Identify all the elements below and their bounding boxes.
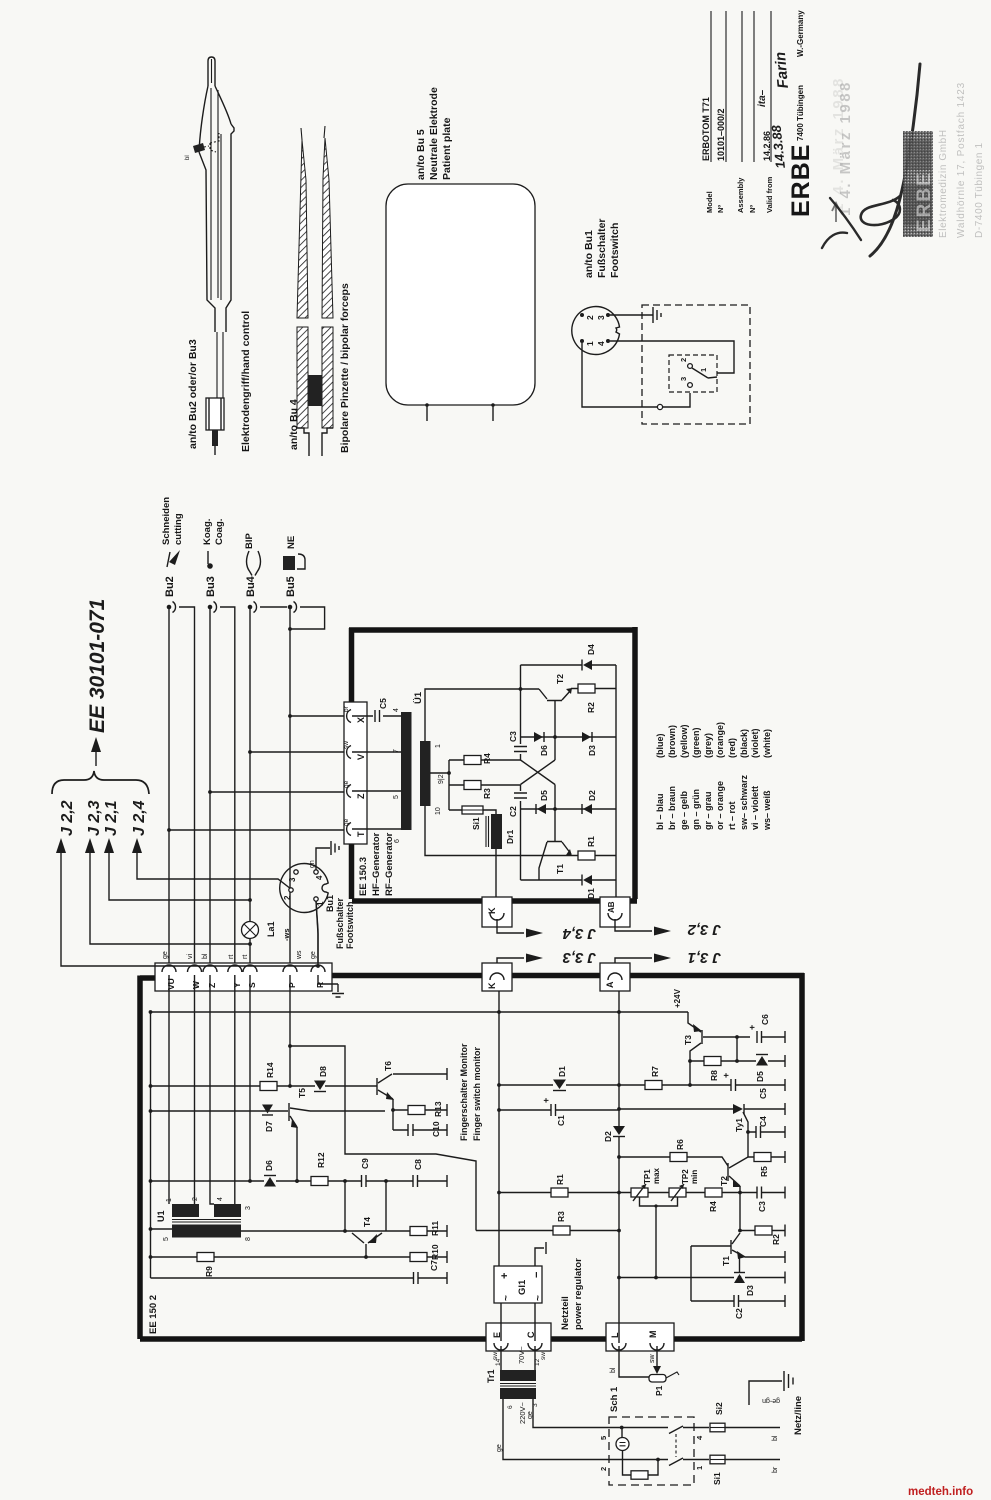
svg-text:J 3,3: J 3,3: [562, 949, 596, 966]
svg-text:D4: D4: [586, 644, 596, 655]
svg-text:Fußschalter: Fußschalter: [596, 218, 608, 278]
switch blade top: [669, 1426, 709, 1434]
plug pin: [212, 430, 218, 446]
svg-text:Ty1: Ty1: [734, 1118, 744, 1132]
svg-text:J 2,3: J 2,3: [86, 800, 103, 836]
svg-text:X: X: [356, 717, 366, 723]
svg-text:D1: D1: [586, 888, 596, 899]
R11 row: [386, 1230, 447, 1232]
svg-text:Elektrodengriff/hand control: Elektrodengriff/hand control: [240, 311, 252, 452]
stamp arrow mark: [832, 203, 840, 222]
svg-text:(grey): (grey): [703, 733, 713, 758]
svg-text:EE 150 2: EE 150 2: [148, 1295, 159, 1334]
switch contact 3: [688, 383, 693, 388]
svg-text:an/to Bu 5: an/to Bu 5: [415, 129, 427, 180]
svg-text:J 2,2: J 2,2: [59, 800, 76, 836]
svg-text:Finger switch monitor: Finger switch monitor: [472, 1046, 482, 1141]
svg-text:C3: C3: [508, 731, 518, 742]
resistor R11: [410, 1227, 427, 1236]
Ty1 row: [619, 1108, 785, 1110]
transformer Tr1: [486, 1346, 668, 1460]
svg-text:U1: U1: [156, 1210, 166, 1222]
svg-text:(red): (red): [727, 738, 737, 758]
connector strip E C: [486, 1323, 551, 1351]
svg-text:La1: La1: [266, 921, 276, 937]
svg-text:R3: R3: [556, 1211, 566, 1222]
capacitor C3: [514, 747, 527, 752]
forceps handle end: [297, 428, 333, 456]
diode D1: [553, 1080, 566, 1090]
svg-text:Si1: Si1: [712, 1472, 722, 1485]
svg-text:ge – gelb: ge – gelb: [679, 790, 689, 830]
handle nose cone: [199, 86, 231, 152]
svg-text:R9: R9: [204, 1266, 214, 1277]
svg-text:an/to Bu1: an/to Bu1: [583, 230, 595, 278]
pin 4: [606, 339, 610, 343]
trimmer TP2: [669, 1188, 686, 1197]
svg-text:R1: R1: [586, 836, 596, 847]
svg-text:P1: P1: [654, 1385, 664, 1396]
svg-text:Si2: Si2: [714, 1402, 724, 1415]
svg-text:1: 1: [166, 1198, 173, 1202]
svg-text:ERBE: ERBE: [914, 171, 935, 232]
svg-text:~: ~: [501, 1295, 512, 1301]
svg-text:5: 5: [599, 1436, 608, 1440]
svg-text:4: 4: [393, 708, 400, 712]
potentiometer P1: [649, 1372, 679, 1396]
D1 R7 C5 row: [499, 1084, 785, 1086]
svg-text:br – braun: br – braun: [667, 786, 677, 830]
transformer U1 primary bar: [401, 712, 412, 830]
ground symbol: [653, 307, 661, 323]
svg-text:C6: C6: [760, 1014, 770, 1025]
svg-text:ws: ws: [296, 950, 303, 960]
svg-text:D5: D5: [539, 790, 549, 801]
svg-text:or – orange: or – orange: [715, 781, 725, 830]
svg-text:Footswitch: Footswitch: [345, 902, 355, 950]
arrowhead J2,1: [104, 838, 114, 853]
capacitor C10: [393, 1129, 447, 1131]
svg-text:Bu2: Bu2: [164, 576, 176, 597]
svg-text:Farin: Farin: [772, 51, 792, 89]
wire J2,3 to lamp: [90, 853, 250, 944]
wire U1 pin8 to T4: [241, 1230, 348, 1232]
wire Bu4 socket to Bu5 pin: [260, 606, 287, 608]
wire L to P1: [610, 1346, 649, 1377]
svg-text:R8: R8: [709, 1070, 719, 1081]
connector VU: [162, 965, 176, 972]
resistor R2: [571, 688, 616, 690]
bipolar forceps drawing: [288, 126, 351, 456]
resistor R1: [571, 855, 616, 857]
inner dashed switch box: [669, 355, 717, 392]
svg-text:D2: D2: [587, 790, 597, 801]
wiper link wire: [640, 1197, 678, 1278]
svg-text:3: 3: [245, 1206, 252, 1210]
svg-text:C9: C9: [360, 1158, 370, 1169]
svg-text:R4: R4: [708, 1201, 718, 1212]
svg-text:C3: C3: [757, 1201, 767, 1212]
svg-text:T2: T2: [719, 1176, 729, 1186]
transistor T6: [376, 1078, 378, 1095]
svg-text:+: +: [721, 1073, 731, 1078]
plug body: [206, 398, 224, 430]
svg-text:min: min: [690, 1170, 699, 1184]
diode row D6 D3: [521, 736, 617, 738]
bottom rail with D1: [521, 879, 617, 881]
svg-text:gn: gn: [309, 860, 316, 868]
wire Z to pin5: [352, 790, 401, 792]
icon bipolar forceps: [246, 551, 260, 576]
svg-text:2: 2: [585, 315, 595, 320]
icon coagulation electrode: [207, 551, 209, 564]
wire Bu3 to Z with branch: [208, 609, 344, 963]
wire Dr1 to K: [495, 849, 497, 899]
capacitor C2: [514, 793, 527, 798]
svg-text:ge: ge: [162, 951, 169, 959]
svg-text:+: +: [541, 1098, 551, 1103]
protective earth: [749, 1371, 793, 1405]
secondary pins: [501, 1346, 535, 1370]
svg-text:R12: R12: [316, 1152, 326, 1168]
connector K: [482, 897, 512, 927]
svg-text:K: K: [487, 982, 497, 989]
svg-text:BIP: BIP: [244, 533, 255, 550]
svg-text:2: 2: [192, 1197, 199, 1201]
svg-text:K: K: [487, 907, 497, 914]
transistor T2: [727, 1163, 729, 1181]
vertical rail D to T4: [344, 1181, 346, 1231]
svg-text:Ü1: Ü1: [413, 691, 424, 704]
svg-text:(blue): (blue): [655, 734, 665, 759]
transistor T2: [539, 689, 571, 701]
svg-text:+24V: +24V: [673, 988, 682, 1008]
svg-text:gr – grau: gr – grau: [703, 791, 713, 830]
svg-text:T5: T5: [297, 1088, 307, 1098]
icon neutral electrode: [283, 556, 295, 570]
svg-text:Koag.: Koag.: [202, 519, 213, 545]
svg-text:R11: R11: [430, 1221, 440, 1236]
handle body outline: [199, 124, 234, 332]
svg-text:Netzteil: Netzteil: [560, 1296, 571, 1330]
connector A lower: [600, 963, 630, 991]
fuse Si2: [710, 1402, 780, 1441]
lamp series resistor: [623, 1451, 659, 1476]
R3 row: [476, 1230, 619, 1232]
svg-text:R13: R13: [433, 1101, 443, 1117]
R2 row: [740, 1230, 785, 1232]
ruled line no: [725, 11, 727, 162]
transistor T3: [688, 1012, 701, 1032]
svg-text:cutting: cutting: [173, 513, 184, 545]
svg-text:J 2,1: J 2,1: [103, 800, 120, 836]
svg-text:2: 2: [283, 895, 292, 900]
svg-text:3: 3: [679, 377, 688, 381]
wire J2,1 to lamp top: [109, 853, 250, 900]
R8 D5 row: [690, 1037, 785, 1061]
resistor R13: [393, 1109, 447, 1111]
R6 row: [619, 1157, 728, 1166]
svg-text:Assembly: Assembly: [736, 177, 745, 213]
T1 base network: [691, 1246, 731, 1301]
ruled line model: [710, 11, 712, 162]
diode D5: [756, 1056, 768, 1066]
svg-text:ge: ge: [343, 818, 350, 826]
T1 base column: [554, 785, 556, 842]
socket Bu2: [161, 497, 184, 613]
R9 row: [151, 1256, 448, 1258]
svg-text:D3: D3: [745, 1285, 755, 1296]
electrode handpiece drawing: [185, 57, 252, 455]
arrow A to J3,1: [615, 958, 652, 970]
pin10 rail to emitter row: [425, 806, 571, 856]
svg-text:Sch 1: Sch 1: [609, 1386, 620, 1412]
svg-text:3: 3: [288, 877, 297, 882]
svg-text:Dr1: Dr1: [505, 830, 515, 844]
diode D3: [734, 1274, 745, 1283]
svg-text:T2: T2: [555, 674, 565, 684]
svg-text:R1: R1: [555, 1174, 565, 1185]
capacitor C7: [414, 1272, 419, 1284]
resistor R4: [705, 1188, 722, 1197]
wire Bu1 pin4 to ground: [309, 841, 339, 870]
transistor T1: [730, 1240, 732, 1254]
wire colour legend: [655, 722, 772, 831]
svg-text:bl: bl: [202, 953, 209, 959]
svg-text:1: 1: [316, 901, 325, 906]
ruled line assembly no: [753, 11, 755, 162]
wire Bu3 socket to Y: [220, 607, 235, 963]
wire colour labels at connectors: [162, 950, 317, 960]
outer dashed enclosure: [642, 305, 750, 424]
transistor T1: [539, 842, 571, 881]
rail C with D7 T5: [151, 1110, 386, 1112]
block border: [349, 627, 637, 901]
forceps left arm upper: [297, 140, 308, 318]
pilot lamp: [621, 1428, 623, 1438]
svg-text:D-7400 Tübingen 1: D-7400 Tübingen 1: [974, 142, 985, 238]
forceps tip marks: [301, 126, 325, 140]
connector X: [347, 710, 351, 723]
left supply rail: [150, 1012, 152, 1278]
plate lead 2: [492, 405, 494, 421]
Gl1 minus to terminal: [535, 1248, 544, 1266]
svg-text:Bu3: Bu3: [205, 576, 217, 597]
svg-text:A: A: [605, 981, 615, 988]
primary wire right ge: [533, 1399, 668, 1428]
svg-text:power regulator: power regulator: [573, 1258, 584, 1330]
svg-text:D5: D5: [755, 1071, 765, 1082]
svg-text:1 4. März 1988: 1 4. März 1988: [830, 76, 847, 212]
svg-text:10: 10: [435, 807, 442, 815]
ruled line assembly: [741, 11, 743, 162]
rail A top: [151, 1011, 689, 1013]
wire T to pin6: [352, 828, 401, 830]
svg-text:C7: C7: [429, 1260, 439, 1271]
wire Y to U1 pin3: [234, 975, 236, 1204]
ground stub at R: [332, 984, 344, 997]
arrow AB to J3,2: [615, 919, 652, 931]
mechanical link: [675, 1434, 677, 1457]
svg-text:T6: T6: [383, 1061, 393, 1071]
svg-text:J 3,2: J 3,2: [687, 921, 721, 938]
trimmer TP1: [631, 1188, 648, 1197]
svg-text:+: +: [499, 1273, 511, 1279]
svg-text:ERBOTOM T71: ERBOTOM T71: [701, 97, 711, 161]
wire V to pin7: [352, 751, 401, 753]
svg-text:10101–000/2: 10101–000/2: [716, 108, 726, 161]
svg-text:4: 4: [596, 341, 606, 346]
pin 1: [580, 339, 584, 343]
capacitor C1 electrolytic: [551, 1104, 556, 1116]
svg-text:Y: Y: [232, 982, 242, 988]
svg-text:1: 1: [585, 341, 595, 346]
wire P to rail B with branch: [289, 975, 291, 1086]
electrode blade: [208, 57, 215, 86]
curly brace: [52, 771, 149, 794]
svg-text:220V~: 220V~: [518, 1401, 527, 1424]
capacitor C5: [352, 710, 401, 722]
svg-text:max: max: [652, 1167, 661, 1184]
svg-text:6: 6: [507, 1405, 514, 1409]
svg-text:6: 6: [394, 839, 401, 843]
svg-text:rt: rt: [228, 955, 235, 959]
svg-text:sw: sw: [492, 1352, 499, 1360]
wire Bu4 to lamp and S with branch to V: [248, 609, 344, 963]
svg-text:Schneiden: Schneiden: [161, 497, 172, 545]
footswitch connector circle: [572, 307, 620, 355]
connector notch box XVZT: [344, 702, 367, 844]
button hook detail: [204, 133, 219, 152]
wire Bu2 to VU with branch to T: [167, 609, 344, 963]
wire pin4 to switch: [610, 341, 734, 373]
svg-text:Z: Z: [207, 983, 217, 988]
wire R to ground stub: [318, 975, 332, 984]
connector S: [243, 965, 257, 972]
chassis ground: [331, 841, 339, 855]
svg-text:EE 150.3: EE 150.3: [358, 857, 369, 896]
svg-text:D6: D6: [264, 1160, 274, 1171]
svg-text:C1: C1: [556, 1115, 566, 1126]
svg-text:ge: ge: [343, 780, 350, 788]
svg-text:Fingerschalter Monitor: Fingerschalter Monitor: [459, 1043, 469, 1141]
C2 row: [691, 1300, 785, 1302]
connector Z: [203, 965, 217, 972]
transistor T4: [348, 1230, 386, 1232]
svg-text:R3: R3: [482, 788, 492, 799]
svg-text:+: +: [747, 1025, 757, 1030]
wire pin3 to ground: [610, 314, 653, 316]
svg-text:T1: T1: [555, 864, 565, 874]
title block: [701, 10, 815, 217]
svg-text:T4: T4: [362, 1217, 372, 1227]
svg-text:vi – violett: vi – violett: [750, 786, 760, 830]
svg-text:TP2: TP2: [681, 1169, 690, 1184]
svg-text:S: S: [247, 982, 257, 988]
svg-text:D7: D7: [264, 1121, 274, 1132]
svg-text:J 2,4: J 2,4: [131, 800, 148, 836]
svg-text:gn – grün: gn – grün: [691, 789, 701, 830]
svg-text:4: 4: [315, 875, 324, 880]
svg-text:Gl1: Gl1: [517, 1279, 528, 1295]
svg-text:D3: D3: [587, 745, 597, 756]
footswitch assembly drawing: [572, 218, 750, 424]
T2 base column: [554, 701, 556, 760]
stamp logo block: [903, 131, 933, 237]
svg-text:AB: AB: [607, 901, 616, 913]
connector T: [347, 823, 351, 836]
svg-text:Bipolare Pinzette / bipolar f: Bipolare Pinzette / bipolar forceps: [339, 283, 351, 453]
block border: [140, 973, 804, 1341]
svg-text:D6: D6: [539, 745, 549, 756]
svg-text:HF–Generator: HF–Generator: [371, 832, 382, 896]
svg-text:sw– schwarz: sw– schwarz: [739, 774, 749, 830]
svg-text:(green): (green): [691, 727, 701, 758]
resistor R1: [551, 1188, 568, 1197]
thyristor Ty1: [733, 1104, 743, 1114]
rubber stamps and signature: [822, 64, 985, 256]
resistor R14: [260, 1082, 277, 1091]
svg-text:1: 1: [695, 1466, 704, 1470]
rail B with R14 D8: [151, 1085, 378, 1087]
wire pin1 to contact 3: [582, 343, 690, 407]
resistor R4: [449, 759, 521, 761]
svg-text:sw: sw: [540, 1352, 547, 1360]
resistor R9: [197, 1253, 214, 1262]
wire pin1 rail: [425, 689, 539, 741]
svg-text:Nº: Nº: [716, 205, 725, 213]
inner shaft lines: [211, 88, 221, 300]
primary wire left ge: [503, 1399, 668, 1460]
svg-text:(black): (black): [739, 729, 749, 758]
connector W: [188, 965, 202, 972]
R1 TP1 TP2 R4 C3 row: [499, 1192, 785, 1194]
svg-text:W.-Germany: W.-Germany: [796, 10, 805, 57]
svg-text:(white): (white): [762, 729, 772, 758]
svg-text:br: br: [772, 1466, 779, 1473]
wire J2,4 to Bu1 pin2: [137, 853, 291, 889]
connector Z: [347, 785, 351, 798]
diode D8: [314, 1081, 326, 1091]
wire U1 pin5 to rail: [151, 1228, 173, 1230]
svg-text:R4: R4: [482, 753, 492, 764]
svg-text:Si1: Si1: [471, 817, 481, 830]
J3 plug arrows: [497, 919, 721, 970]
svg-text:C2: C2: [734, 1308, 744, 1319]
R5 row: [748, 1156, 785, 1158]
socket Bu3: [202, 519, 225, 613]
HF generator block EE 150.3: [343, 627, 637, 927]
svg-text:C5: C5: [378, 698, 388, 709]
rail D with D6 R12 C9 C8: [151, 1180, 448, 1182]
transformer U1 secondary bar: [420, 741, 431, 806]
svg-text:Z: Z: [356, 793, 366, 799]
connector R: [311, 965, 325, 972]
svg-text:rt – rot: rt – rot: [727, 801, 737, 830]
svg-text:R2: R2: [586, 702, 596, 713]
svg-text:2: 2: [599, 1467, 608, 1471]
connector Y: [228, 965, 242, 972]
svg-text:70V~: 70V~: [517, 1346, 526, 1364]
svg-text:medteh.info: medteh.info: [908, 1486, 973, 1498]
svg-text:Bu5: Bu5: [285, 576, 297, 597]
svg-text:D8: D8: [318, 1066, 328, 1077]
svg-text:-ws: -ws: [282, 928, 291, 941]
diode D6: [264, 1177, 276, 1187]
diode D2: [613, 1126, 625, 1135]
signature loop: [861, 196, 900, 225]
resistor R7: [645, 1081, 662, 1090]
